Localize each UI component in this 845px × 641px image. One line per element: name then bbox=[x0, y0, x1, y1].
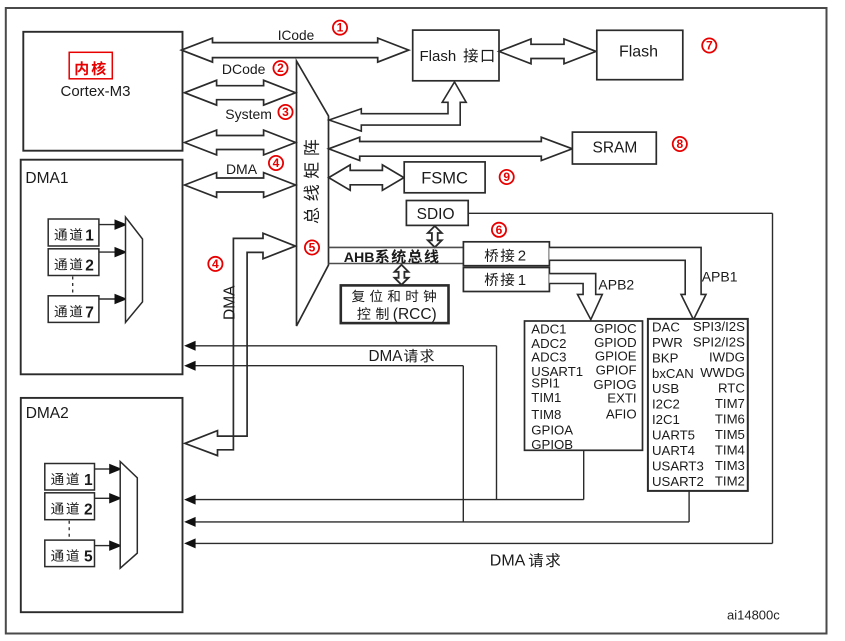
svg-text:DMA: DMA bbox=[369, 348, 404, 365]
svg-text:1: 1 bbox=[337, 21, 344, 35]
svg-text:1: 1 bbox=[518, 272, 526, 289]
svg-text:UART5: UART5 bbox=[652, 428, 695, 443]
svg-text:WWDG: WWDG bbox=[700, 365, 745, 380]
block DMA1 bbox=[21, 160, 183, 375]
label DMA (vertical) bbox=[221, 285, 238, 320]
dashed link DMA2 channels bbox=[68, 521, 70, 540]
block Flash 接口 bbox=[413, 30, 499, 81]
wire DMA request line D bbox=[184, 517, 689, 527]
svg-text:8: 8 bbox=[676, 137, 683, 151]
block FSMC bbox=[404, 162, 485, 193]
bus matrix 总线矩阵 bbox=[297, 61, 329, 326]
svg-text:TIM4: TIM4 bbox=[715, 442, 745, 457]
svg-text:6: 6 bbox=[496, 223, 503, 237]
arrow bridge2-APB1 bbox=[549, 247, 706, 319]
callout 9 bbox=[500, 170, 514, 184]
box DMA1 通道2 bbox=[48, 249, 99, 276]
svg-text:USB: USB bbox=[652, 381, 679, 396]
svg-text:PWR: PWR bbox=[652, 335, 683, 350]
wire branch V3 bbox=[462, 366, 464, 522]
svg-text:1: 1 bbox=[84, 472, 93, 489]
svg-text:2: 2 bbox=[277, 61, 284, 75]
block 桥接2 bbox=[463, 242, 549, 266]
svg-text:AFIO: AFIO bbox=[606, 406, 637, 421]
svg-text:EXTI: EXTI bbox=[607, 391, 636, 406]
arrow ICode bbox=[182, 38, 409, 62]
label ai14800c bbox=[727, 608, 780, 623]
label APB1 bbox=[702, 269, 738, 285]
wire SDIO-DMA2 vert right bbox=[772, 213, 774, 543]
svg-text:SDIO: SDIO bbox=[417, 206, 455, 223]
callout 7 bbox=[702, 38, 716, 52]
svg-text:(RCC): (RCC) bbox=[393, 306, 437, 323]
svg-text:TIM5: TIM5 bbox=[715, 427, 745, 442]
box DMA2 通道5 bbox=[45, 540, 95, 567]
wire DMA2 ch2-mux bbox=[95, 493, 123, 504]
wire DMA2 ch5-mux bbox=[95, 540, 123, 551]
arrow bridge1-APB2 bbox=[549, 274, 602, 320]
svg-text:USART2: USART2 bbox=[652, 474, 704, 489]
svg-text:Cortex-M3: Cortex-M3 bbox=[60, 83, 130, 100]
svg-text:TIM1: TIM1 bbox=[531, 390, 561, 405]
svg-text:3: 3 bbox=[282, 105, 289, 119]
wire SDIO-DMA2 horiz top bbox=[468, 212, 772, 214]
svg-text:APB1: APB1 bbox=[702, 269, 738, 285]
svg-text:SPI1: SPI1 bbox=[531, 376, 560, 391]
svg-text:APB2: APB2 bbox=[598, 276, 634, 292]
box DMA2 通道2 bbox=[45, 493, 95, 520]
svg-text:DAC: DAC bbox=[652, 319, 680, 334]
wire DMA request line B bbox=[184, 495, 584, 505]
svg-text:RTC: RTC bbox=[718, 381, 745, 396]
label DMA2 bbox=[26, 405, 69, 422]
mux DMA2 bbox=[120, 462, 137, 569]
wire DMA1 ch2-mux bbox=[99, 247, 128, 258]
block SDIO bbox=[406, 201, 468, 226]
svg-text:SPI2/I2S: SPI2/I2S bbox=[693, 334, 745, 349]
svg-text:DMA1: DMA1 bbox=[25, 170, 68, 187]
svg-text:I2C2: I2C2 bbox=[652, 397, 680, 412]
arrow DCode bbox=[185, 80, 296, 105]
svg-text:GPIOB: GPIOB bbox=[531, 437, 573, 452]
wire DMA request line A bbox=[184, 341, 496, 351]
wire APB1-DMA2 (vert) bbox=[688, 491, 690, 522]
callout 4b bbox=[208, 257, 222, 271]
callout 8 bbox=[673, 137, 687, 151]
label DMA 请求 (lower) bbox=[490, 553, 560, 570]
label DMA1 bbox=[25, 170, 68, 187]
svg-text:BKP: BKP bbox=[652, 350, 679, 365]
svg-text:2: 2 bbox=[518, 248, 526, 265]
svg-text:DCode: DCode bbox=[222, 61, 266, 77]
callout 4a bbox=[269, 156, 283, 170]
block SRAM bbox=[572, 132, 656, 164]
block APB2 peripherals bbox=[525, 321, 643, 452]
callout 3 bbox=[278, 105, 292, 119]
svg-text:USART3: USART3 bbox=[652, 458, 704, 473]
svg-text:9: 9 bbox=[503, 170, 510, 184]
bus AHB 系统总线 bbox=[329, 247, 464, 263]
label ICode bbox=[278, 28, 315, 43]
wire branch V1 bbox=[496, 346, 498, 500]
block DMA2 bbox=[21, 398, 183, 612]
svg-text:DMA2: DMA2 bbox=[26, 405, 69, 422]
block Flash bbox=[597, 30, 683, 79]
svg-text:TIM7: TIM7 bbox=[715, 396, 745, 411]
svg-text:TIM8: TIM8 bbox=[531, 407, 561, 422]
block RCC 复位和时钟控制 bbox=[341, 285, 449, 323]
callout 5 bbox=[305, 240, 319, 254]
svg-text:5: 5 bbox=[84, 549, 93, 566]
arrow DMA2-matrix (thick DMA) bbox=[185, 233, 296, 455]
label DCode bbox=[222, 61, 266, 77]
svg-text:UART4: UART4 bbox=[652, 443, 695, 458]
svg-text:GPIOE: GPIOE bbox=[595, 348, 637, 363]
callout 2 bbox=[273, 61, 287, 75]
svg-text:DMA: DMA bbox=[221, 285, 238, 320]
svg-text:7: 7 bbox=[706, 39, 713, 53]
label 内核 (red box) bbox=[69, 52, 112, 79]
arrow SDIO-AHB bbox=[428, 226, 442, 247]
wire APB2-DMA2 (vert) bbox=[583, 450, 585, 499]
arrow matrix-Flash interface bbox=[329, 82, 466, 131]
block Cortex-M3 bbox=[23, 32, 182, 151]
label System bbox=[225, 106, 272, 122]
arrow AHB-RCC bbox=[395, 265, 409, 285]
arrow matrix-SRAM bbox=[329, 137, 573, 160]
callout 1 bbox=[333, 21, 347, 35]
callout 6 bbox=[492, 223, 506, 237]
mux DMA1 bbox=[126, 217, 143, 322]
arrow matrix-FSMC bbox=[329, 165, 404, 190]
svg-text:TIM3: TIM3 bbox=[715, 458, 745, 473]
svg-text:DMA: DMA bbox=[490, 553, 526, 570]
svg-text:ADC1: ADC1 bbox=[531, 322, 566, 337]
svg-text:System: System bbox=[225, 106, 272, 122]
svg-text:GPIOA: GPIOA bbox=[531, 423, 573, 438]
arrow DMA (DMA1-matrix) bbox=[185, 173, 296, 198]
dashed link DMA1 channels bbox=[72, 277, 74, 296]
wire DMA2 ch1-mux bbox=[95, 464, 123, 475]
svg-text:Flash: Flash bbox=[420, 48, 457, 65]
svg-text:TIM6: TIM6 bbox=[715, 412, 745, 427]
svg-text:ICode: ICode bbox=[278, 28, 315, 43]
box DMA2 通道1 bbox=[45, 464, 95, 491]
wire DMA1 ch1-mux bbox=[99, 219, 128, 230]
block 桥接1 bbox=[463, 268, 549, 292]
arrow Flash interface-Flash bbox=[499, 39, 596, 64]
box DMA1 通道1 bbox=[48, 219, 99, 246]
wire DMA request line C bbox=[184, 361, 463, 371]
svg-text:DMA: DMA bbox=[226, 161, 258, 177]
svg-text:ADC3: ADC3 bbox=[531, 349, 566, 364]
svg-text:bxCAN: bxCAN bbox=[652, 366, 694, 381]
label APB2 bbox=[598, 276, 634, 292]
label 总线矩阵 (vertical) bbox=[303, 140, 319, 223]
svg-text:7: 7 bbox=[85, 304, 94, 321]
svg-text:AHB: AHB bbox=[344, 250, 375, 266]
block APB1 peripherals bbox=[648, 319, 748, 491]
svg-text:4: 4 bbox=[273, 156, 280, 170]
svg-text:TIM2: TIM2 bbox=[715, 473, 745, 488]
svg-text:5: 5 bbox=[309, 241, 316, 255]
wire DMA request line E bbox=[184, 538, 772, 548]
label DMA bbox=[226, 161, 258, 177]
svg-text:GPIOF: GPIOF bbox=[596, 363, 637, 378]
svg-text:4: 4 bbox=[212, 257, 219, 271]
svg-text:IWDG: IWDG bbox=[709, 350, 745, 365]
svg-text:2: 2 bbox=[84, 502, 93, 519]
svg-text:SPI3/I2S: SPI3/I2S bbox=[693, 319, 745, 334]
arrow System bbox=[185, 130, 296, 155]
svg-text:1: 1 bbox=[85, 228, 94, 245]
svg-text:2: 2 bbox=[85, 257, 94, 274]
box DMA1 通道7 bbox=[48, 296, 99, 323]
label DMA 请求 (upper) bbox=[369, 348, 434, 365]
svg-text:Flash: Flash bbox=[619, 44, 658, 61]
svg-text:SRAM: SRAM bbox=[593, 140, 638, 157]
svg-text:GPIOC: GPIOC bbox=[594, 321, 637, 336]
wire DMA1 ch7-mux bbox=[99, 294, 128, 305]
svg-text:ai14800c: ai14800c bbox=[727, 608, 780, 623]
label Cortex-M3 bbox=[60, 83, 130, 100]
label AHB系统总线 bbox=[344, 249, 439, 266]
svg-text:I2C1: I2C1 bbox=[652, 412, 680, 427]
svg-text:FSMC: FSMC bbox=[421, 170, 468, 188]
